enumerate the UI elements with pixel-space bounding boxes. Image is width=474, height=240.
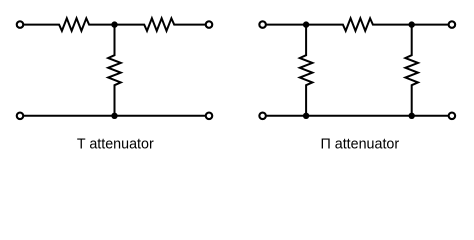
svg-text:Π attenuator: Π attenuator [320,137,399,153]
svg-text:T attenuator: T attenuator [77,137,154,153]
